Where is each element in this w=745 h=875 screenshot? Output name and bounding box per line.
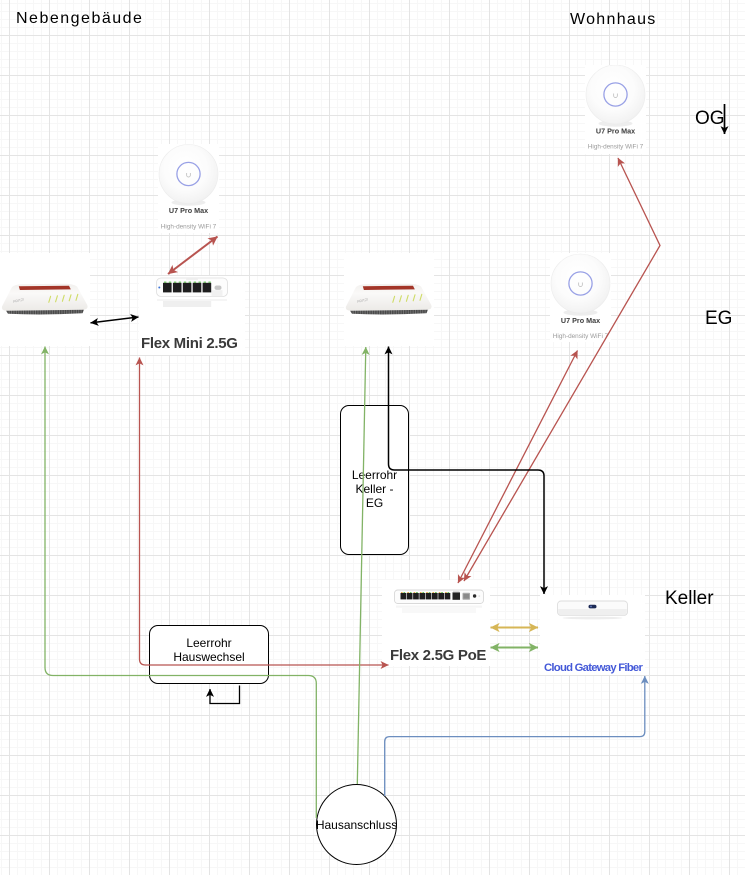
- wire black elbow FritzBox Wohnhaus to Cloud Gateway Fiber: [389, 347, 545, 595]
- label OG: [695, 108, 725, 130]
- label Keller: [665, 588, 714, 610]
- wire red diagonal Flex PoE to OG AP via elbow: [464, 158, 660, 581]
- wire blue Hausanschluss to Cloud Gateway Fiber: [385, 676, 645, 796]
- device image Flex 2.5G PoE switch: [382, 580, 490, 671]
- wire green Hausanschluss to FritzBox Nebengebäude: [45, 347, 316, 819]
- device image U7 Pro Max AP Wohnhaus EG: [550, 253, 611, 347]
- device image FritzBox Wohnhaus: [344, 253, 434, 351]
- label Cloud Gateway Fiber: [544, 662, 642, 674]
- wire red elbow Flex Mini to Flex 2.5G PoE: [140, 358, 389, 666]
- label Nebengebäude: [16, 10, 143, 28]
- device image Flex Mini 2.5G switch: [139, 276, 245, 360]
- node Leerrohr Keller - EG box: [340, 405, 409, 555]
- wire black double arrow FritzBox1 to Flex Mini: [91, 317, 139, 323]
- label Wohnhaus: [570, 11, 657, 29]
- device image U7 Pro Max AP Wohnhaus OG: [585, 65, 646, 159]
- node Hausanschluss circle: [316, 784, 397, 865]
- shared svg defs: [0, 0, 1, 1]
- wire green Hausanschluss to FritzBox Wohnhaus: [357, 347, 366, 784]
- label Flex 2.5G PoE: [390, 647, 486, 664]
- wire red diagonal Flex PoE to EG AP: [458, 351, 578, 584]
- arrow black OG down: [724, 104, 726, 134]
- device image Cloud Gateway Fiber: [540, 595, 645, 680]
- node Leerrohr Hauswechsel box: [149, 625, 269, 684]
- device image FritzBox Nebengebäude: [0, 253, 90, 351]
- wire yellow double arrow Flex PoE to Cloud Gateway: [491, 627, 539, 629]
- wire black self-loop Leerrohr Hauswechsel: [210, 686, 240, 704]
- wire red double arrow AP1 to Flex Mini: [168, 237, 218, 275]
- wire green double arrow Flex PoE to Cloud Gateway: [491, 647, 539, 649]
- label Flex Mini 2.5G: [141, 335, 238, 352]
- device image U7 Pro Max AP Nebengebäude: [158, 144, 219, 238]
- label EG: [705, 308, 732, 330]
